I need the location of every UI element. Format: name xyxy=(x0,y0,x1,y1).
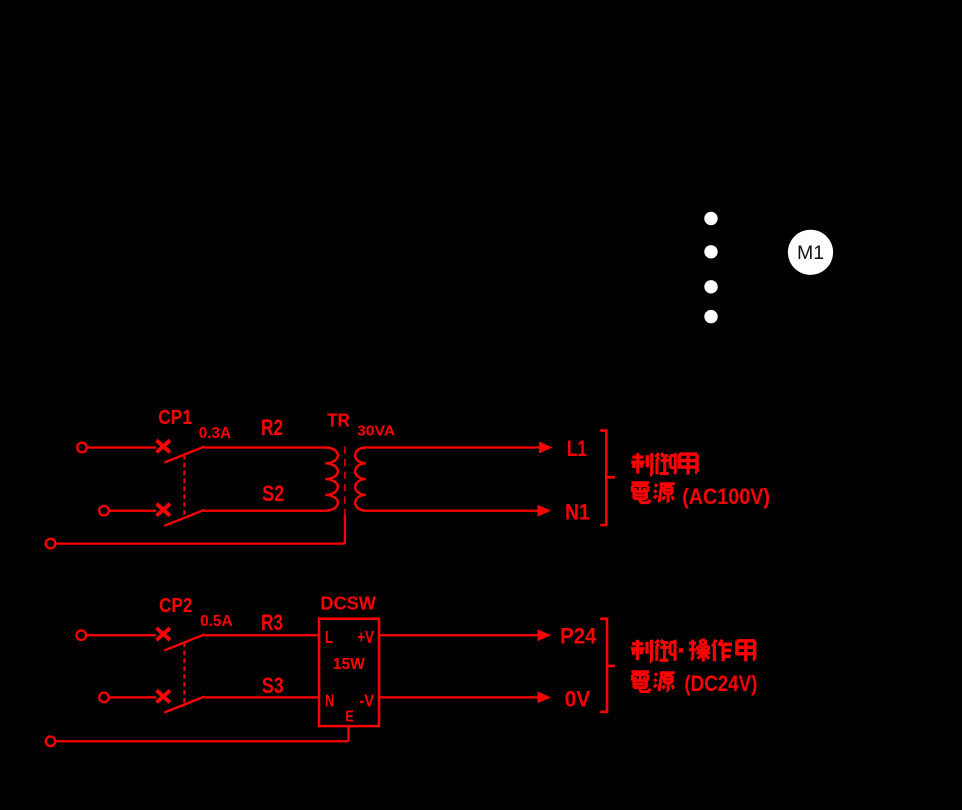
svg-text:L: L xyxy=(325,627,333,647)
svg-text:CP1: CP1 xyxy=(158,406,192,429)
svg-text:(DC24V): (DC24V) xyxy=(684,671,757,696)
svg-text:N: N xyxy=(325,691,334,711)
svg-text:0V: 0V xyxy=(565,686,591,711)
svg-text:DCSW: DCSW xyxy=(320,592,376,613)
svg-text:+V: +V xyxy=(357,627,374,647)
svg-text:TR: TR xyxy=(327,410,350,431)
svg-text:0.5A: 0.5A xyxy=(200,613,233,630)
svg-text:L1: L1 xyxy=(567,436,587,461)
svg-text:S2: S2 xyxy=(262,481,284,506)
svg-text:30VA: 30VA xyxy=(357,423,395,440)
svg-text:R3: R3 xyxy=(261,610,283,635)
svg-text:N1: N1 xyxy=(565,499,590,524)
svg-text:S3: S3 xyxy=(262,673,284,698)
svg-text:M1: M1 xyxy=(797,242,824,264)
svg-text:R2: R2 xyxy=(261,415,283,440)
svg-text:(AC100V): (AC100V) xyxy=(682,484,770,509)
svg-text:P24: P24 xyxy=(560,623,597,648)
svg-text:-V: -V xyxy=(359,691,374,711)
svg-text:15W: 15W xyxy=(333,656,365,673)
svg-text:0.3A: 0.3A xyxy=(199,425,232,442)
svg-text:CP2: CP2 xyxy=(159,594,192,617)
svg-text:E: E xyxy=(345,709,353,726)
